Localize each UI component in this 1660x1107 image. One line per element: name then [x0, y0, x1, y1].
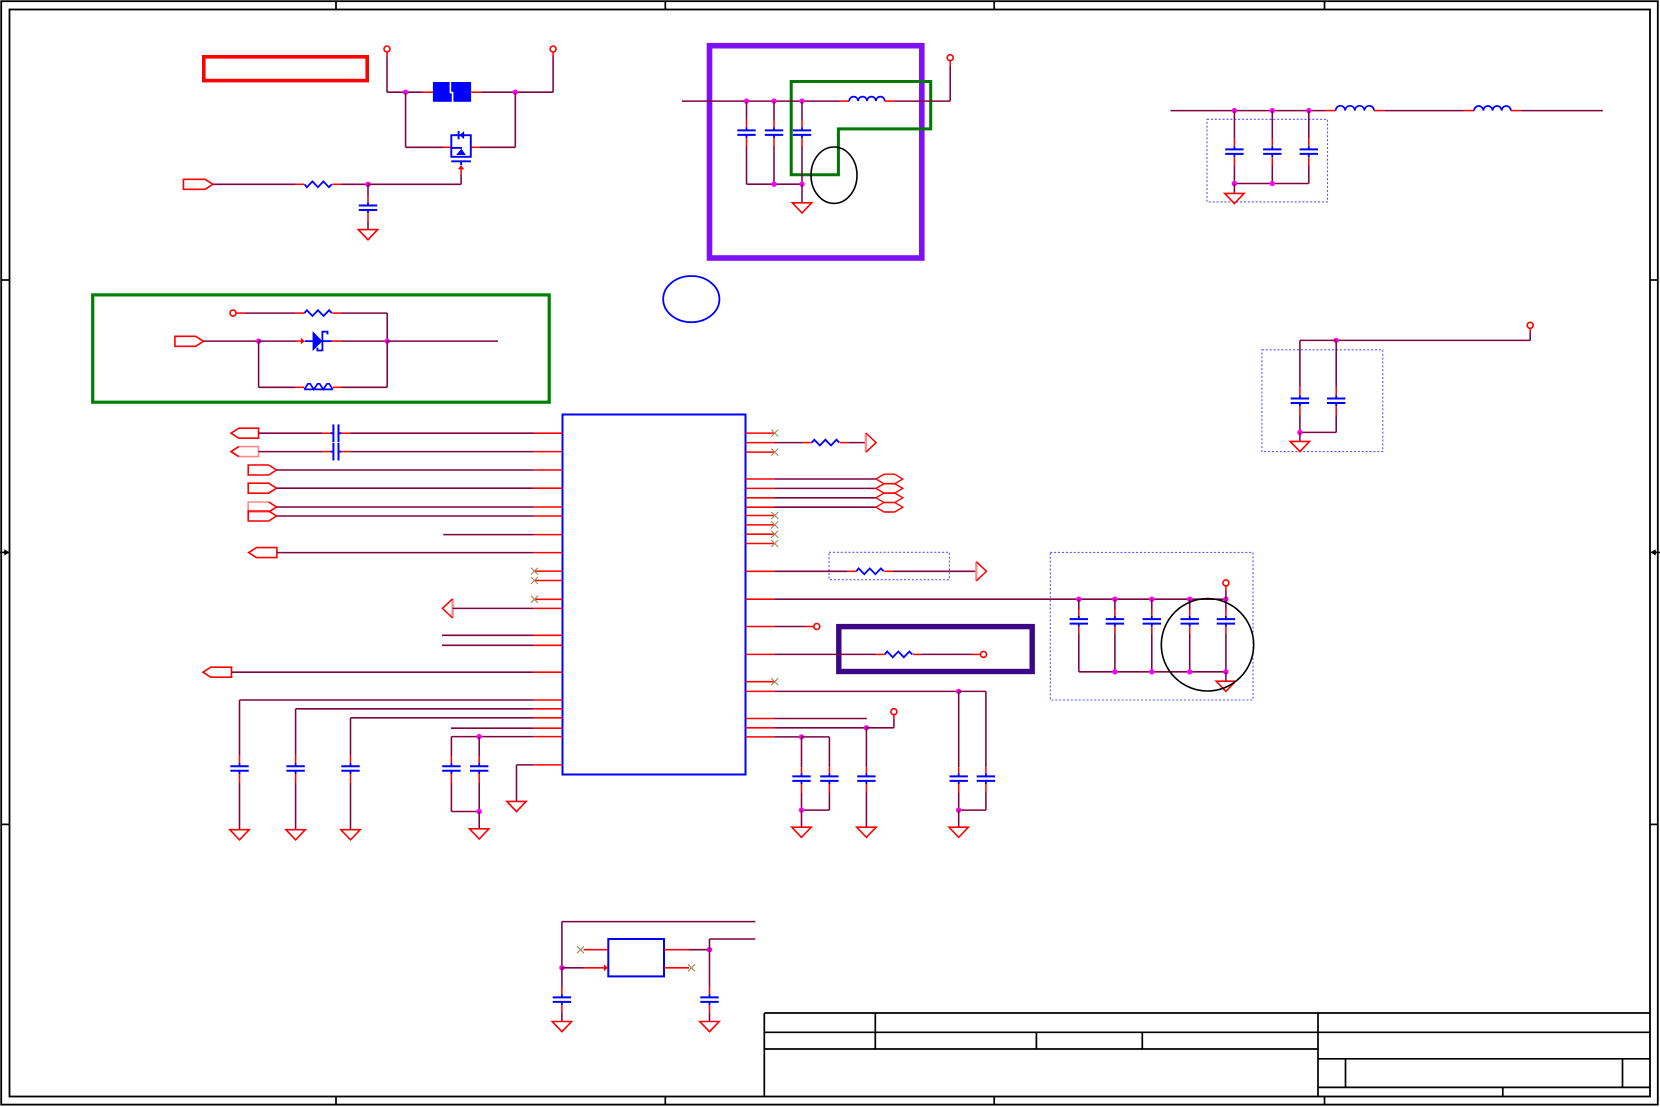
pin of U1 left r21 — [534, 764, 563, 766]
wire — [213, 183, 296, 185]
junction — [956, 807, 961, 812]
pin 1 of R2 — [296, 312, 305, 314]
junction — [1076, 597, 1081, 602]
wire — [451, 727, 534, 729]
pin — [1335, 387, 1337, 395]
wire — [709, 939, 711, 950]
junction — [799, 734, 804, 739]
black ellipse marker — [811, 147, 857, 203]
wire — [517, 764, 534, 766]
wire — [774, 727, 866, 729]
port tag row6 — [248, 511, 276, 521]
resistor R1 — [305, 181, 332, 187]
pin 2 of R5 — [840, 442, 849, 444]
purple highlight box — [710, 46, 922, 258]
wire — [774, 183, 802, 185]
port tag row4 — [248, 483, 276, 493]
pin — [985, 767, 987, 773]
pin of U1 left r1 — [534, 432, 563, 434]
bank capacitor — [1217, 616, 1235, 627]
junction — [1149, 597, 1154, 602]
pin of U1 right x3 — [746, 515, 775, 517]
wire — [1151, 599, 1153, 609]
wire — [350, 782, 352, 829]
wire — [774, 570, 848, 572]
no-connect X — [771, 430, 778, 437]
wire — [451, 736, 479, 738]
decoupling capacitor — [341, 763, 359, 774]
pin 2 of C3 — [773, 138, 775, 146]
wire — [802, 809, 830, 811]
pin — [893, 715, 895, 719]
pin 1 of C1 — [367, 196, 369, 202]
pin 2 of cap — [350, 774, 352, 782]
wire — [562, 967, 584, 969]
wire — [773, 147, 775, 185]
pin — [972, 653, 981, 655]
pin — [386, 52, 388, 57]
wire — [387, 91, 406, 93]
wire — [921, 653, 972, 655]
series capacitor C10 — [330, 424, 341, 442]
pin — [450, 774, 452, 782]
inductor L2 — [1336, 106, 1374, 111]
wire — [451, 811, 479, 813]
port terminal J7 — [814, 624, 820, 630]
pin 2 of R2 — [332, 312, 341, 314]
wire — [709, 950, 711, 987]
no-connect X — [688, 964, 695, 971]
red highlight box — [204, 57, 367, 81]
wire — [561, 1012, 563, 1021]
wire — [1384, 110, 1464, 112]
wire — [1308, 111, 1310, 138]
wire — [232, 671, 534, 673]
pin 2 of cap — [239, 774, 241, 782]
junction — [799, 807, 804, 812]
wire — [1299, 432, 1301, 441]
wire — [802, 100, 839, 102]
pin 2 of RV1 — [333, 386, 342, 388]
wire — [746, 147, 748, 185]
port tag row3 — [248, 465, 276, 475]
wire — [958, 810, 960, 827]
pin 1 of cap — [295, 756, 297, 764]
port triangle right — [866, 433, 876, 452]
wire — [866, 727, 894, 729]
port terminal J5 — [1527, 322, 1533, 328]
wire — [773, 101, 775, 119]
pin of U1 left r2 — [534, 451, 563, 453]
pin 1 of cap — [239, 756, 241, 764]
dotted group box D — [1050, 552, 1253, 700]
no-connect X — [531, 577, 538, 584]
pin of U1 right x5 — [746, 533, 775, 535]
decoupling capacitor — [230, 763, 248, 774]
transistor Q1 — [451, 131, 471, 165]
port tag row15 — [203, 667, 232, 677]
wire — [386, 57, 388, 93]
wire — [561, 968, 563, 987]
pin of U1 right x2 — [746, 451, 775, 453]
pin — [985, 784, 987, 792]
capacitor — [1327, 395, 1345, 406]
wire — [406, 91, 423, 93]
wire — [1152, 671, 1190, 673]
junction — [1306, 108, 1311, 113]
inductor L3 — [1474, 106, 1511, 111]
pin — [450, 757, 452, 764]
wire — [985, 793, 987, 811]
wire — [240, 699, 534, 701]
capacitor — [977, 773, 995, 784]
wire — [259, 386, 296, 388]
pin 2 of F1 — [471, 91, 482, 93]
pin of U1 left r18 — [534, 717, 563, 719]
bank capacitor — [1070, 616, 1088, 627]
wire — [277, 506, 534, 508]
green highlight path — [791, 82, 931, 175]
junction — [559, 965, 564, 970]
dotted group box B — [1262, 350, 1383, 452]
wire — [386, 313, 388, 341]
pin 4 of U2 — [664, 967, 689, 969]
pin of U1 right x1 — [746, 432, 775, 434]
port triangle left — [442, 599, 452, 618]
pin — [949, 61, 951, 65]
ground — [358, 230, 377, 240]
pin 1 of L1 — [839, 100, 849, 102]
pin 1 of R5 — [803, 442, 812, 444]
wire — [367, 184, 369, 196]
ground — [341, 830, 360, 840]
junction — [1297, 430, 1302, 435]
ground — [1290, 441, 1309, 451]
pin 1 of C10 — [322, 432, 331, 434]
wire — [478, 812, 480, 829]
wire — [259, 432, 323, 434]
ground — [286, 830, 305, 840]
pin of U1 left r17 — [534, 708, 563, 710]
pin — [958, 767, 960, 773]
black circle marker — [1161, 599, 1253, 691]
wire — [514, 92, 516, 147]
bank capacitor — [1143, 616, 1161, 627]
pin — [236, 312, 245, 314]
pin — [801, 767, 803, 773]
hex port 3 — [876, 493, 903, 503]
pin of U1 left r4 — [534, 487, 563, 489]
wire — [1234, 183, 1272, 185]
capacitor C5 — [1225, 146, 1243, 157]
capacitor — [857, 773, 875, 784]
pin 1 of C6 — [1271, 138, 1273, 146]
wire — [1225, 672, 1227, 681]
pin 1 of C11 — [322, 451, 331, 453]
pin of U1 right x6 — [746, 543, 775, 545]
pin 2 of R4 — [884, 570, 893, 572]
junction — [1232, 108, 1237, 113]
capacitor C7 — [1300, 146, 1318, 157]
wire — [1225, 633, 1227, 672]
varistor RV1 — [304, 384, 333, 390]
pin 2 of C1 — [367, 213, 369, 221]
junction — [1223, 669, 1228, 674]
junction — [1232, 181, 1237, 186]
wire — [1152, 598, 1190, 600]
pin — [828, 784, 830, 792]
wire — [1299, 340, 1301, 387]
wire — [387, 340, 498, 342]
wire — [342, 386, 388, 388]
pin — [1529, 328, 1531, 332]
junction — [477, 734, 482, 739]
pin — [478, 774, 480, 782]
pin of U1 right rr14 — [746, 626, 775, 628]
pin — [478, 757, 480, 764]
bank capacitor — [1181, 616, 1199, 627]
pin of U1 left r13 — [534, 634, 563, 636]
wire — [1336, 339, 1530, 341]
wire — [478, 782, 480, 811]
capacitor — [792, 773, 810, 784]
wire — [386, 341, 388, 387]
wire — [893, 719, 895, 728]
wire — [747, 100, 775, 102]
fuse F1 — [433, 82, 471, 103]
port tag row2 — [231, 447, 259, 457]
wire — [239, 782, 241, 829]
ground — [1225, 193, 1244, 203]
wire — [341, 183, 368, 185]
hex port 2 — [876, 484, 903, 494]
wire — [1521, 110, 1603, 112]
wire — [1271, 166, 1273, 184]
pin 1 of L2 — [1325, 110, 1335, 112]
wire — [710, 938, 756, 940]
junction — [864, 725, 869, 730]
pin 2 of C6 — [1271, 157, 1273, 165]
port terminal J6 — [1223, 580, 1229, 586]
junction — [1149, 669, 1154, 674]
no-connect X — [577, 946, 584, 953]
junction — [771, 182, 776, 187]
pin 1 of RV1 — [296, 386, 305, 388]
pin of U1 left r7 — [534, 534, 563, 536]
junction — [513, 90, 518, 95]
pin 1 of C3 — [773, 120, 775, 128]
wire — [1079, 671, 1115, 673]
junction — [477, 809, 482, 814]
capacitor — [470, 763, 488, 774]
pin 2 of L1 — [885, 100, 895, 102]
regulator U2 — [608, 939, 664, 976]
pin — [1078, 610, 1080, 616]
wire — [259, 340, 296, 342]
pin of U1 left r3 — [534, 469, 563, 471]
wire — [865, 728, 867, 767]
pin — [801, 784, 803, 792]
junction — [799, 98, 804, 103]
pin 2 of R3 — [913, 653, 922, 655]
wire — [958, 691, 960, 767]
pin — [1225, 586, 1227, 592]
pin 2 of C4 — [801, 138, 803, 146]
pin 1 of C2 — [746, 120, 748, 128]
pin — [1078, 627, 1080, 633]
wire — [245, 312, 296, 314]
wire — [1189, 599, 1191, 609]
wire — [801, 101, 803, 119]
pin of U1 right rr20 — [746, 736, 775, 738]
pin 1 of C7 — [1308, 138, 1310, 146]
junction — [1112, 597, 1117, 602]
wire — [442, 634, 534, 636]
wire — [259, 451, 323, 453]
wire — [1079, 598, 1115, 600]
wire — [774, 487, 876, 489]
wire — [204, 340, 259, 342]
pin 2 of cap — [295, 774, 297, 782]
wire — [406, 146, 443, 148]
pin 1 of C4 — [801, 120, 803, 128]
capacitor C21 — [700, 994, 718, 1005]
junction — [403, 90, 408, 95]
pin of U1 right rr13 — [746, 598, 775, 600]
title block — [764, 1013, 1650, 1097]
capacitor — [442, 763, 460, 774]
wire — [515, 91, 553, 93]
junction — [956, 689, 961, 694]
port terminal J8 — [981, 651, 987, 657]
wire — [1233, 166, 1235, 184]
pin — [1335, 406, 1337, 414]
pin 1 of F1 — [423, 91, 434, 93]
wire — [341, 340, 387, 342]
resistor R5 — [812, 440, 839, 446]
pin — [865, 784, 867, 792]
wire — [405, 92, 407, 147]
wire — [277, 487, 534, 489]
pin — [709, 987, 711, 994]
zener diode D1 — [305, 331, 332, 351]
wire — [774, 718, 867, 720]
junction — [1334, 338, 1339, 343]
wire — [1190, 598, 1226, 600]
port terminal J3 — [947, 55, 953, 61]
wire — [746, 101, 748, 119]
port terminal J9 — [891, 709, 897, 715]
pin of U1 left r19 — [534, 727, 563, 729]
pin — [552, 52, 554, 57]
wire — [350, 432, 534, 434]
blue ellipse marker — [663, 276, 719, 322]
wire — [1335, 415, 1337, 433]
pin of U1 left r15 — [534, 671, 563, 673]
green highlight box — [93, 295, 550, 402]
pin of U1 left r20 — [534, 736, 563, 738]
wire — [747, 183, 775, 185]
wire — [801, 147, 803, 185]
wire — [561, 922, 563, 968]
pin of U1 right h4 — [746, 506, 775, 508]
wire — [949, 65, 951, 101]
pin of Q1 right — [471, 146, 480, 148]
port terminal J1 — [384, 46, 390, 52]
pin 2 of U2 — [584, 967, 604, 969]
wire — [1308, 166, 1310, 184]
wire — [774, 690, 959, 692]
junction — [1270, 181, 1275, 186]
wire — [1115, 598, 1152, 600]
pin 2 of L2 — [1374, 110, 1384, 112]
pin — [1299, 406, 1301, 414]
pin of U1 right rr18 — [746, 718, 775, 720]
wire — [828, 737, 830, 767]
ground — [552, 1022, 571, 1032]
wire — [1225, 599, 1227, 609]
capacitor C20 — [553, 994, 571, 1005]
pin of U1 right rr15 — [746, 653, 775, 655]
junction — [1270, 108, 1275, 113]
wire — [1190, 671, 1226, 673]
pin — [1299, 387, 1301, 395]
resistor R4 — [856, 568, 883, 574]
wire — [277, 469, 534, 471]
wire — [865, 793, 867, 828]
decoupling capacitor — [286, 763, 304, 774]
ground — [470, 829, 489, 839]
pin of U1 right h1 — [746, 478, 775, 480]
junction — [385, 338, 390, 343]
wire — [774, 626, 805, 628]
capacitor C1 — [359, 202, 377, 213]
wire — [1078, 599, 1080, 609]
wire — [442, 644, 534, 646]
wire — [1114, 599, 1116, 609]
no-connect X — [771, 678, 778, 685]
port terminal J4 — [230, 310, 236, 316]
wire — [985, 691, 987, 767]
junction — [256, 338, 261, 343]
capacitor — [950, 773, 968, 784]
frame left center arrow — [0, 549, 9, 555]
ground — [507, 801, 526, 811]
port tag row1 — [231, 428, 259, 438]
pin of Q1 left — [443, 146, 451, 148]
junction — [799, 182, 804, 187]
wire — [296, 708, 534, 710]
dotted group box A — [1207, 119, 1328, 202]
pin 1 of R3 — [876, 653, 885, 655]
pin 1 of R4 — [848, 570, 857, 572]
wire — [258, 341, 260, 387]
capacitor — [820, 773, 838, 784]
capacitor C3 — [765, 127, 783, 138]
resistor R3 — [885, 652, 912, 658]
port tag row5 — [248, 502, 276, 512]
wire — [774, 497, 876, 499]
ground — [700, 1022, 719, 1032]
pin arrow of U2 — [604, 965, 608, 972]
no-connect X — [771, 531, 778, 538]
wire — [774, 506, 876, 508]
wire — [709, 1012, 711, 1021]
no-connect X — [531, 568, 538, 575]
wire — [801, 810, 803, 827]
pin of U1 left x1 — [534, 570, 563, 572]
inductor L1 — [849, 97, 885, 101]
